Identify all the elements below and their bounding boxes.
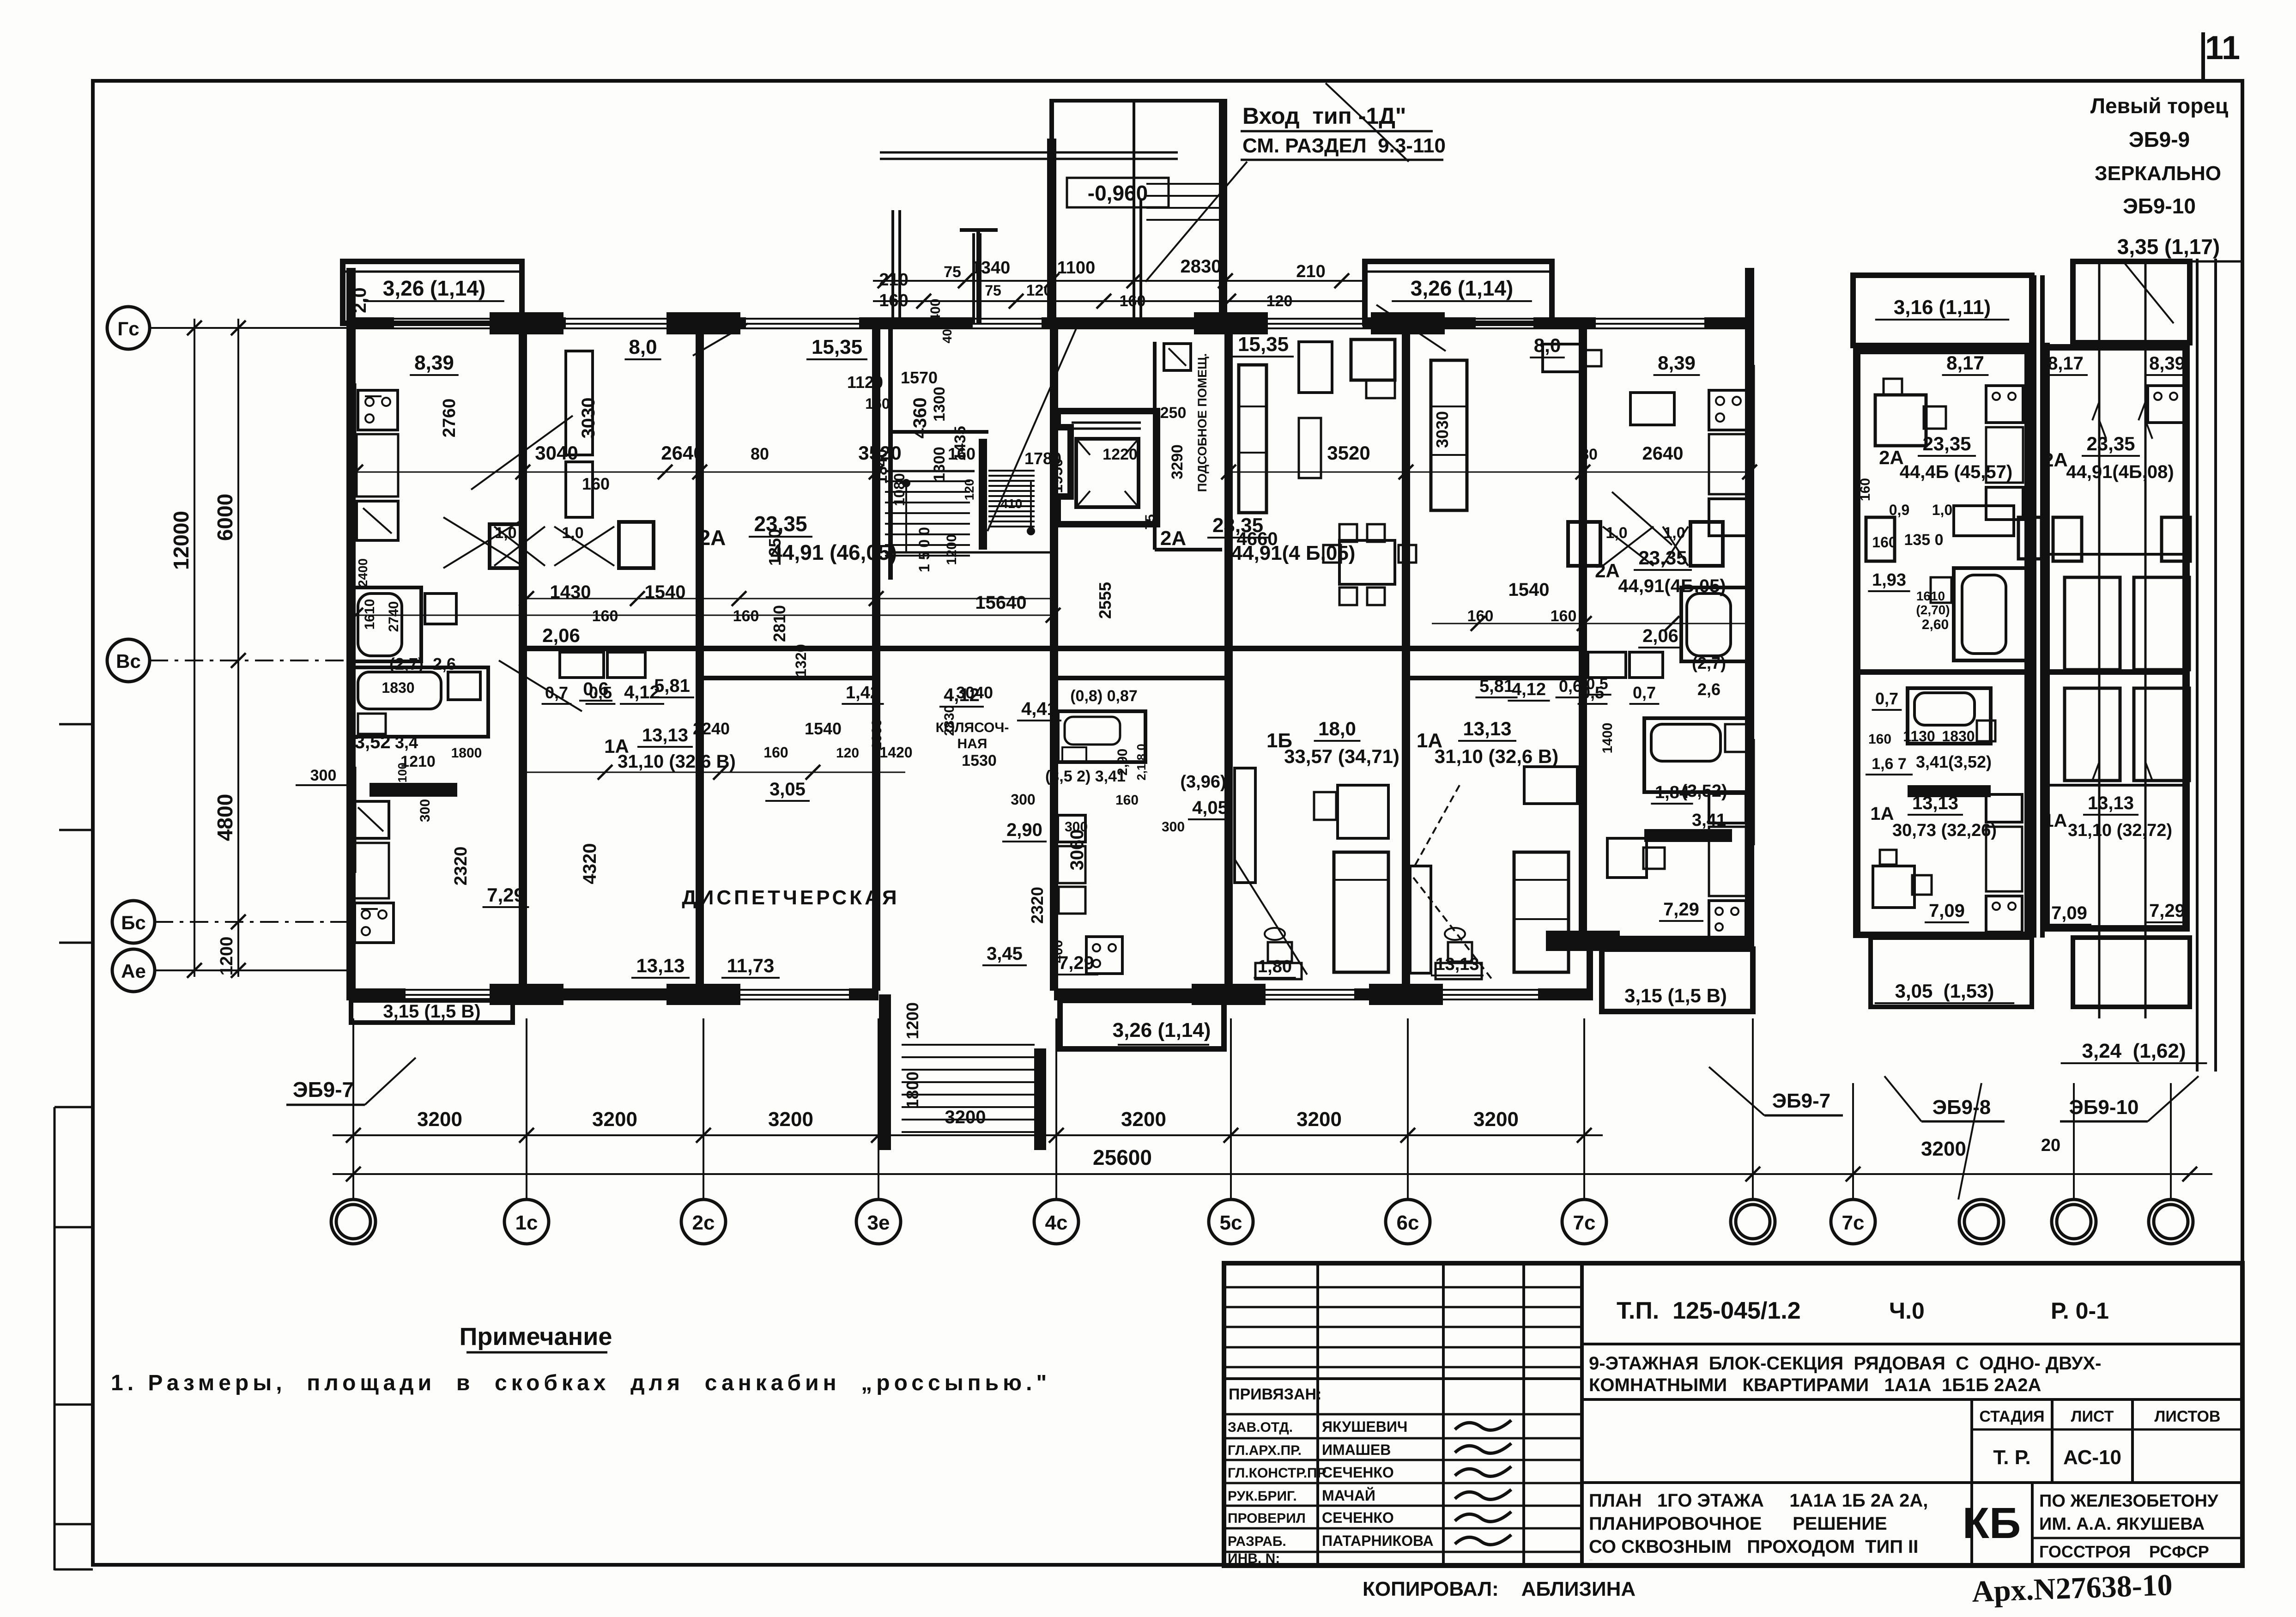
svg-text:2320: 2320 — [1028, 887, 1047, 924]
grid axis extension lines — [352, 1018, 354, 1199]
t1 bed small — [1954, 506, 2014, 536]
svg-text:3,24 (1,62): 3,24 (1,62) — [2082, 1040, 2186, 1062]
tower1 balcony top — [1853, 275, 2032, 345]
bed mid 1 — [1334, 852, 1388, 972]
balcony bottom-left — [351, 1000, 513, 1023]
dim row 3200 main — [333, 1134, 1603, 1136]
t2 mid wall — [2046, 669, 2186, 675]
grid bubble Gs — [107, 307, 150, 349]
svg-text:3200: 3200 — [945, 1107, 986, 1127]
dim chain y1022 left — [356, 472, 878, 473]
svg-text:3200: 3200 — [1296, 1108, 1342, 1131]
svg-text:4,41: 4,41 — [1021, 699, 1057, 719]
t2 kitchen — [2148, 386, 2185, 423]
windows top wall — [394, 318, 503, 320]
svg-text:МАЧАЙ: МАЧАЙ — [1322, 1487, 1375, 1504]
windows left wall — [347, 383, 348, 490]
svg-text:1А: 1А — [2043, 811, 2067, 831]
svg-text:1,93: 1,93 — [1872, 570, 1906, 590]
balcony bottom-mid — [1060, 1000, 1224, 1049]
porch T post — [960, 228, 998, 232]
svg-text:23,35: 23,35 — [2086, 433, 2135, 454]
sofa right room — [1239, 365, 1266, 513]
svg-text:Р. 0-1: Р. 0-1 — [2051, 1298, 2109, 1324]
tower1 walls — [1853, 345, 1860, 938]
dim 15640 — [356, 615, 1053, 616]
svg-text:4,12: 4,12 — [1512, 680, 1546, 699]
t1 kitchen — [1986, 386, 2023, 423]
bath cluster left lower — [352, 667, 488, 737]
svg-text:АС-10: АС-10 — [2063, 1446, 2121, 1469]
outer wall bottom bay67 — [1584, 936, 1754, 947]
svg-text:23,35: 23,35 — [1212, 514, 1263, 537]
right edge wall lines — [2196, 259, 2199, 1072]
svg-text:1200: 1200 — [903, 1002, 922, 1039]
svg-text:1120: 1120 — [847, 373, 883, 392]
svg-text:Т.П. 125-045/1.2: Т.П. 125-045/1.2 — [1617, 1297, 1801, 1324]
svg-text:7с: 7с — [1842, 1211, 1865, 1234]
vestibule walls — [1049, 99, 1054, 319]
svg-text:2740: 2740 — [386, 601, 401, 632]
svg-text:Левый торец: Левый торец — [2090, 94, 2228, 118]
svg-text:13,13: 13,13 — [642, 725, 688, 745]
windows bottom left — [406, 989, 500, 991]
tower2 break band — [2098, 259, 2101, 1018]
svg-text:44,91(4 Б,05): 44,91(4 Б,05) — [1231, 542, 1356, 564]
svg-text:1800: 1800 — [903, 1072, 922, 1108]
kitchen stove top-left — [358, 390, 398, 430]
svg-text:7,29: 7,29 — [1058, 953, 1094, 973]
grid bubble Av — [112, 949, 155, 992]
svg-text:7,29: 7,29 — [1663, 899, 1699, 920]
svg-text:31,10 (32,72): 31,10 (32,72) — [2068, 821, 2172, 840]
left dim line 12000 — [194, 319, 195, 977]
svg-text:2с: 2с — [692, 1211, 715, 1234]
svg-text:31,10 (32,6 В): 31,10 (32,6 В) — [1435, 745, 1559, 767]
bath cluster right — [1644, 718, 1751, 792]
t1 wardrobe — [1866, 517, 1895, 561]
svg-text:1080: 1080 — [891, 473, 908, 506]
svg-text:4,12: 4,12 — [624, 682, 660, 703]
desk r2 — [1630, 393, 1674, 425]
svg-text:СТАДИЯ: СТАДИЯ — [1979, 1408, 2044, 1425]
svg-text:1540: 1540 — [805, 719, 842, 738]
svg-text:1540: 1540 — [1508, 580, 1550, 600]
kitchen bottom-left sink — [352, 801, 389, 838]
svg-text:13,13: 13,13 — [1463, 718, 1511, 739]
svg-text:ЛИСТОВ: ЛИСТОВ — [2155, 1408, 2221, 1425]
svg-text:(2,7): (2,7) — [389, 654, 424, 673]
pilasters bottom wall — [490, 984, 563, 1005]
grid bubble Bs — [112, 901, 155, 943]
stamp privyazan line — [1224, 1377, 1582, 1380]
svg-text:23,35: 23,35 — [1638, 547, 1687, 569]
leader lines misc — [471, 416, 573, 490]
svg-text:2320: 2320 — [451, 847, 471, 886]
svg-text:ПОДСОБНОЕ ПОМЕЩ.: ПОДСОБНОЕ ПОМЕЩ. — [1195, 353, 1209, 492]
svg-text:ИМ. А.А. ЯКУШЕВА: ИМ. А.А. ЯКУШЕВА — [2039, 1514, 2205, 1534]
svg-text:0,9: 0,9 — [1889, 502, 1909, 518]
top dim lines — [873, 280, 1367, 282]
diag left room — [443, 517, 527, 568]
grid bubbles bottom labeled — [504, 1199, 549, 1244]
svg-text:3,05 (1,53): 3,05 (1,53) — [1895, 980, 1994, 1002]
svg-text:160: 160 — [1868, 732, 1891, 747]
t2 wardrobe — [2053, 517, 2082, 561]
svg-text:8,39: 8,39 — [1658, 352, 1696, 374]
internal stair walls — [888, 329, 893, 580]
corridor wall lower — [700, 676, 876, 680]
svg-text:ПРИВЯЗАН:: ПРИВЯЗАН: — [1229, 1386, 1321, 1403]
svg-text:75: 75 — [1143, 514, 1158, 529]
svg-text:ЯКУШЕВИЧ: ЯКУШЕВИЧ — [1322, 1418, 1407, 1435]
svg-text:ПО ЖЕЛЕЗОБЕТОНУ: ПО ЖЕЛЕЗОБЕТОНУ — [2039, 1491, 2218, 1511]
dim chain y1022 right — [1229, 472, 1750, 473]
svg-text:2640: 2640 — [1642, 443, 1684, 464]
svg-text:2А: 2А — [2043, 449, 2068, 471]
svg-text:1200: 1200 — [217, 937, 236, 976]
svg-text:80: 80 — [751, 444, 769, 463]
svg-text:-0,960: -0,960 — [1088, 181, 1148, 205]
corridor closet left — [560, 652, 604, 678]
svg-text:3200: 3200 — [592, 1108, 637, 1131]
svg-text:Арх.N27638-10: Арх.N27638-10 — [1971, 1568, 2173, 1609]
svg-text:3,26 (1,14): 3,26 (1,14) — [383, 276, 485, 300]
svg-text:1200: 1200 — [944, 534, 959, 565]
stamp top rows left — [1224, 1286, 1582, 1289]
svg-text:ЭБ9-8: ЭБ9-8 — [1933, 1096, 1991, 1119]
level mark -0.960 — [1067, 178, 1169, 207]
svg-text:ЭБ9-10: ЭБ9-10 — [2069, 1096, 2139, 1119]
svg-text:13,13: 13,13 — [636, 955, 685, 976]
svg-text:44,4Б (45,57): 44,4Б (45,57) — [1900, 462, 2012, 482]
windows bottom mid — [1242, 989, 1354, 991]
svg-text:5,81: 5,81 — [1479, 677, 1514, 696]
svg-text:80: 80 — [1580, 446, 1598, 463]
svg-text:6000: 6000 — [213, 494, 237, 541]
svg-text:3200: 3200 — [1473, 1108, 1519, 1131]
dim chain y1350 right — [1432, 623, 1751, 624]
svg-text:2,1 8 0: 2,1 8 0 — [1134, 744, 1148, 781]
svg-text:12000: 12000 — [169, 511, 193, 570]
svg-text:ПАТАРНИКОВА: ПАТАРНИКОВА — [1322, 1532, 1434, 1549]
svg-text:2,6: 2,6 — [1697, 680, 1720, 699]
porch wall b — [972, 233, 975, 323]
svg-text:1,42: 1,42 — [846, 683, 880, 703]
svg-text:1610: 1610 — [1916, 589, 1945, 603]
svg-text:2,90: 2,90 — [1006, 820, 1042, 840]
svg-text:8,17: 8,17 — [1946, 352, 1984, 374]
svg-text:1830: 1830 — [1942, 728, 1975, 745]
svg-text:44,91 (46,05): 44,91 (46,05) — [770, 540, 897, 564]
svg-text:ПЛАН 1ГО ЭТАЖА 1А1А 1Б 2: ПЛАН 1ГО ЭТАЖА 1А1А 1Б 2А 2А, — [1589, 1490, 1928, 1511]
left margin column — [54, 1107, 56, 1570]
svg-text:1,0: 1,0 — [1932, 502, 1952, 518]
svg-text:ИНВ. N:: ИНВ. N: — [1228, 1551, 1280, 1566]
svg-text:3290: 3290 — [1169, 444, 1186, 479]
stamp line under name — [1582, 1398, 2242, 1401]
tower1 bottom balcony — [1871, 938, 2032, 1007]
tower2 bottom balcony — [2073, 938, 2190, 1007]
dim row 25600 — [333, 1173, 2212, 1175]
svg-text:РУК.БРИГ.: РУК.БРИГ. — [1228, 1489, 1297, 1504]
kitchen stove c — [1086, 937, 1122, 974]
svg-text:6с: 6с — [1397, 1211, 1419, 1234]
svg-text:4,05: 4,05 — [1192, 798, 1228, 818]
svg-text:ЛИСТ: ЛИСТ — [2071, 1408, 2114, 1425]
svg-text:160: 160 — [1551, 607, 1577, 625]
sofa top-left room — [566, 351, 593, 455]
svg-text:400: 400 — [940, 322, 954, 344]
svg-text:ПЛАНИРОВОЧНОЕ РЕШЕНИЕ: ПЛАНИРОВОЧНОЕ РЕШЕНИЕ — [1589, 1514, 1887, 1534]
t1 mid wall — [1857, 669, 2028, 675]
elevator cab — [1076, 439, 1139, 507]
internal stair flights — [885, 480, 970, 482]
svg-text:2,60: 2,60 — [1922, 617, 1949, 632]
svg-text:300: 300 — [1162, 819, 1185, 835]
tower1 table — [1875, 395, 1926, 446]
svg-text:1А: 1А — [1870, 804, 1894, 824]
svg-text:ПРОВЕРИЛ: ПРОВЕРИЛ — [1228, 1511, 1306, 1526]
svg-text:44,91(4Б,05): 44,91(4Б,05) — [1618, 576, 1726, 596]
svg-text:Примечание: Примечание — [460, 1323, 612, 1351]
svg-text:Вс: Вс — [116, 650, 141, 672]
svg-text:3040: 3040 — [535, 442, 578, 464]
vestibule inner — [1133, 101, 1135, 319]
corridor closet right — [1588, 652, 1626, 678]
stamp name rows — [1224, 1413, 1582, 1416]
svg-text:(3,52: (3,52 — [348, 732, 390, 752]
stamp line under tp — [1582, 1343, 2242, 1345]
svg-text:3,41: 3,41 — [1692, 811, 1726, 830]
svg-text:3,35 (1,17): 3,35 (1,17) — [2117, 235, 2220, 259]
svg-text:44,91(4Б,08): 44,91(4Б,08) — [2066, 462, 2174, 482]
svg-text:1,6 7: 1,6 7 — [1872, 755, 1907, 773]
svg-text:1,0: 1,0 — [1605, 524, 1627, 542]
svg-text:1250: 1250 — [765, 529, 784, 566]
svg-text:1220: 1220 — [1103, 446, 1138, 463]
balcony top-mid-right — [1365, 261, 1552, 323]
kitchen right top — [1709, 390, 1749, 430]
svg-text:3,15 (1,5 В): 3,15 (1,5 В) — [1624, 985, 1727, 1006]
svg-text:1,80: 1,80 — [1258, 957, 1292, 976]
svg-text:8,0: 8,0 — [629, 336, 657, 358]
svg-text:7,29: 7,29 — [2149, 901, 2185, 921]
svg-text:3200: 3200 — [768, 1108, 813, 1131]
stamp stage grid — [1970, 1399, 1973, 1566]
svg-text:1. Размеры, площади в скобк: 1. Размеры, площади в скобках для санкаб… — [111, 1371, 1051, 1395]
svg-text:160: 160 — [1858, 478, 1873, 501]
svg-text:1420: 1420 — [879, 744, 912, 761]
svg-text:0,5: 0,5 — [589, 683, 612, 702]
svg-text:2830: 2830 — [1181, 256, 1222, 277]
grid leader Av — [155, 969, 348, 971]
kitchen stove bottom-left — [355, 903, 394, 943]
svg-text:1610: 1610 — [362, 599, 377, 630]
svg-text:33,57 (34,71): 33,57 (34,71) — [1284, 745, 1399, 767]
svg-text:160: 160 — [1115, 793, 1139, 808]
svg-text:120: 120 — [962, 479, 976, 501]
armchair r — [1543, 344, 1584, 372]
svg-text:15,35: 15,35 — [812, 336, 862, 358]
svg-text:75: 75 — [944, 263, 961, 281]
svg-text:Гс: Гс — [117, 318, 139, 339]
svg-text:18,0: 18,0 — [1318, 718, 1356, 739]
svg-text:1300: 1300 — [931, 387, 948, 422]
small bath mid — [1058, 711, 1145, 762]
svg-text:1100: 1100 — [1057, 258, 1095, 278]
svg-text:2640: 2640 — [661, 442, 704, 464]
svg-text:2А: 2А — [1160, 527, 1186, 550]
svg-text:3200: 3200 — [417, 1108, 462, 1131]
svg-text:Ч.0: Ч.0 — [1889, 1298, 1925, 1324]
svg-text:160: 160 — [733, 607, 759, 625]
stamp outer — [1224, 1263, 2242, 1566]
svg-text:410: 410 — [1001, 497, 1023, 511]
wardrobe pair right — [1568, 522, 1600, 566]
svg-text:3е: 3е — [867, 1211, 890, 1234]
svg-text:3,26 (1,14): 3,26 (1,14) — [1113, 1019, 1211, 1042]
porch wall c — [1047, 139, 1050, 323]
dim chain y1660 — [527, 772, 905, 773]
svg-text:160: 160 — [592, 607, 618, 625]
page number tick — [2201, 32, 2205, 81]
svg-text:160: 160 — [1120, 292, 1146, 310]
t2 beds2 — [2065, 688, 2120, 781]
svg-text:30,73 (32,26): 30,73 (32,26) — [1892, 821, 1997, 840]
svg-text:13,13: 13,13 — [1435, 955, 1479, 974]
svg-text:1800: 1800 — [451, 745, 482, 761]
svg-text:31,10 (32,6 В): 31,10 (32,6 В) — [618, 751, 736, 772]
wardrobe mid 2 — [1410, 866, 1431, 973]
svg-text:7,29: 7,29 — [487, 884, 525, 906]
svg-text:25600: 25600 — [1093, 1145, 1152, 1169]
wardrobe mid 1 — [1235, 768, 1255, 883]
table right room — [1299, 342, 1332, 393]
svg-text:2,6: 2,6 — [433, 654, 456, 673]
svg-text:НАЯ: НАЯ — [957, 736, 987, 751]
storage walls — [1153, 342, 1157, 550]
grid bubbles bottom blank — [331, 1199, 376, 1244]
svg-text:СМ. РАЗДЕЛ 9.3-110: СМ. РАЗДЕЛ 9.3-110 — [1242, 134, 1446, 157]
tower2 walls — [2042, 343, 2050, 931]
svg-text:0,7: 0,7 — [1875, 689, 1898, 708]
corridor wall upper — [523, 646, 1054, 651]
svg-text:2,90: 2,90 — [1115, 749, 1130, 775]
svg-text:1320: 1320 — [793, 644, 809, 677]
small squares row — [370, 783, 457, 797]
break marks — [2092, 402, 2099, 420]
t1 squares row — [1908, 785, 1991, 797]
svg-text:15,35: 15,35 — [1238, 333, 1289, 356]
svg-text:1830: 1830 — [382, 679, 414, 696]
svg-text:3,15 (1,5 В): 3,15 (1,5 В) — [383, 1001, 480, 1022]
svg-text:ГОССТРОЯ РСФСР: ГОССТРОЯ РСФСР — [2039, 1542, 2209, 1561]
svg-text:8,17: 8,17 — [2048, 353, 2084, 374]
porch wall a — [891, 210, 894, 323]
svg-text:2400: 2400 — [356, 558, 370, 587]
svg-text:ГЛ.АРХ.ПР.: ГЛ.АРХ.ПР. — [1228, 1443, 1302, 1458]
kitchen counter top-left — [357, 434, 398, 497]
bed mid 2 — [1514, 852, 1569, 972]
svg-text:ЗЕРКАЛЬНО: ЗЕРКАЛЬНО — [2095, 162, 2221, 185]
svg-text:2810: 2810 — [770, 605, 789, 642]
nightstand mid 1 — [1255, 963, 1302, 979]
sink mid — [1058, 815, 1085, 842]
svg-text:300: 300 — [310, 767, 337, 784]
svg-text:3030: 3030 — [578, 398, 599, 439]
entrance stair treads — [902, 1044, 1035, 1046]
svg-text:ДИСПЕТЧЕРСКАЯ: ДИСПЕТЧЕРСКАЯ — [682, 886, 899, 909]
svg-text:1300: 1300 — [931, 447, 948, 482]
svg-text:3200: 3200 — [1921, 1138, 1966, 1160]
svg-text:0,7: 0,7 — [545, 683, 568, 702]
svg-text:120: 120 — [1266, 292, 1293, 310]
svg-text:11,73: 11,73 — [727, 955, 775, 976]
kitchen bottom-left counter — [352, 843, 389, 898]
t1 bath — [1954, 568, 2028, 660]
svg-text:2555: 2555 — [1096, 582, 1115, 619]
svg-text:9-ЭТАЖНАЯ БЛОК-СЕКЦИЯ РЯДОВА: 9-ЭТАЖНАЯ БЛОК-СЕКЦИЯ РЯДОВАЯ С ОДНО- ДВ… — [1589, 1353, 2102, 1374]
svg-text:ГЛ.КОНСТР.ПР.: ГЛ.КОНСТР.ПР. — [1228, 1466, 1328, 1481]
svg-text:Т. Р.: Т. Р. — [1993, 1446, 2030, 1469]
party walls — [519, 329, 527, 991]
wardrobe r — [1351, 339, 1395, 380]
svg-text:(2,70): (2,70) — [1916, 603, 1950, 617]
wardrobe pair left — [490, 524, 522, 568]
svg-text:300: 300 — [1011, 791, 1035, 808]
svg-text:КОПИРОВАЛ: АБЛИЗИНА: КОПИРОВАЛ: АБЛИЗИНА — [1363, 1578, 1636, 1600]
svg-text:120: 120 — [836, 745, 859, 761]
svg-text:160: 160 — [865, 395, 890, 412]
stair core upper wall — [891, 430, 988, 434]
svg-text:Бс: Бс — [121, 912, 146, 933]
svg-text:3,05: 3,05 — [769, 779, 806, 799]
svg-text:СЕЧЕНКО: СЕЧЕНКО — [1322, 1464, 1394, 1481]
svg-text:0,7: 0,7 — [1633, 683, 1656, 702]
outer wall bottom left — [346, 988, 406, 1000]
storage sink — [1164, 344, 1191, 370]
svg-text:1130: 1130 — [1903, 728, 1935, 745]
svg-text:1530: 1530 — [962, 752, 997, 769]
svg-text:ЭБ9-10: ЭБ9-10 — [2123, 194, 2196, 218]
stamp signatures — [1455, 1420, 1511, 1430]
vestibule steps — [1146, 183, 1222, 185]
small squares row r — [1644, 829, 1732, 842]
svg-text:15640: 15640 — [975, 593, 1026, 613]
svg-text:8,39: 8,39 — [2149, 353, 2185, 374]
left dim line 6000-4800-1200 — [237, 319, 239, 977]
svg-text:135 0: 135 0 — [1904, 531, 1943, 549]
bed right room — [1431, 360, 1467, 510]
svg-text:3520: 3520 — [858, 442, 901, 464]
svg-text:160: 160 — [582, 474, 610, 493]
svg-text:РАЗРАБ.: РАЗРАБ. — [1228, 1534, 1286, 1549]
grid leader Vs — [150, 660, 348, 661]
svg-text:3,4: 3,4 — [395, 733, 418, 752]
stamp KB cell — [2031, 1483, 2034, 1566]
svg-text:КБ: КБ — [1963, 1499, 2021, 1548]
svg-text:ЭБ9-7: ЭБ9-7 — [293, 1078, 354, 1102]
elevator shaft — [1058, 411, 1157, 524]
svg-text:2,06: 2,06 — [542, 624, 580, 646]
entrance leader — [1145, 162, 1247, 282]
svg-text:3,26 (1,14): 3,26 (1,14) — [1411, 276, 1513, 300]
svg-text:3520: 3520 — [1327, 442, 1370, 464]
svg-text:КОМНАТНЫМИ КВАРТИРАМИ 1А1А: КОМНАТНЫМИ КВАРТИРАМИ 1А1А 1Б1Б 2А2А — [1589, 1375, 2041, 1395]
balcony top-left — [343, 261, 522, 323]
svg-text:2760: 2760 — [440, 399, 459, 438]
